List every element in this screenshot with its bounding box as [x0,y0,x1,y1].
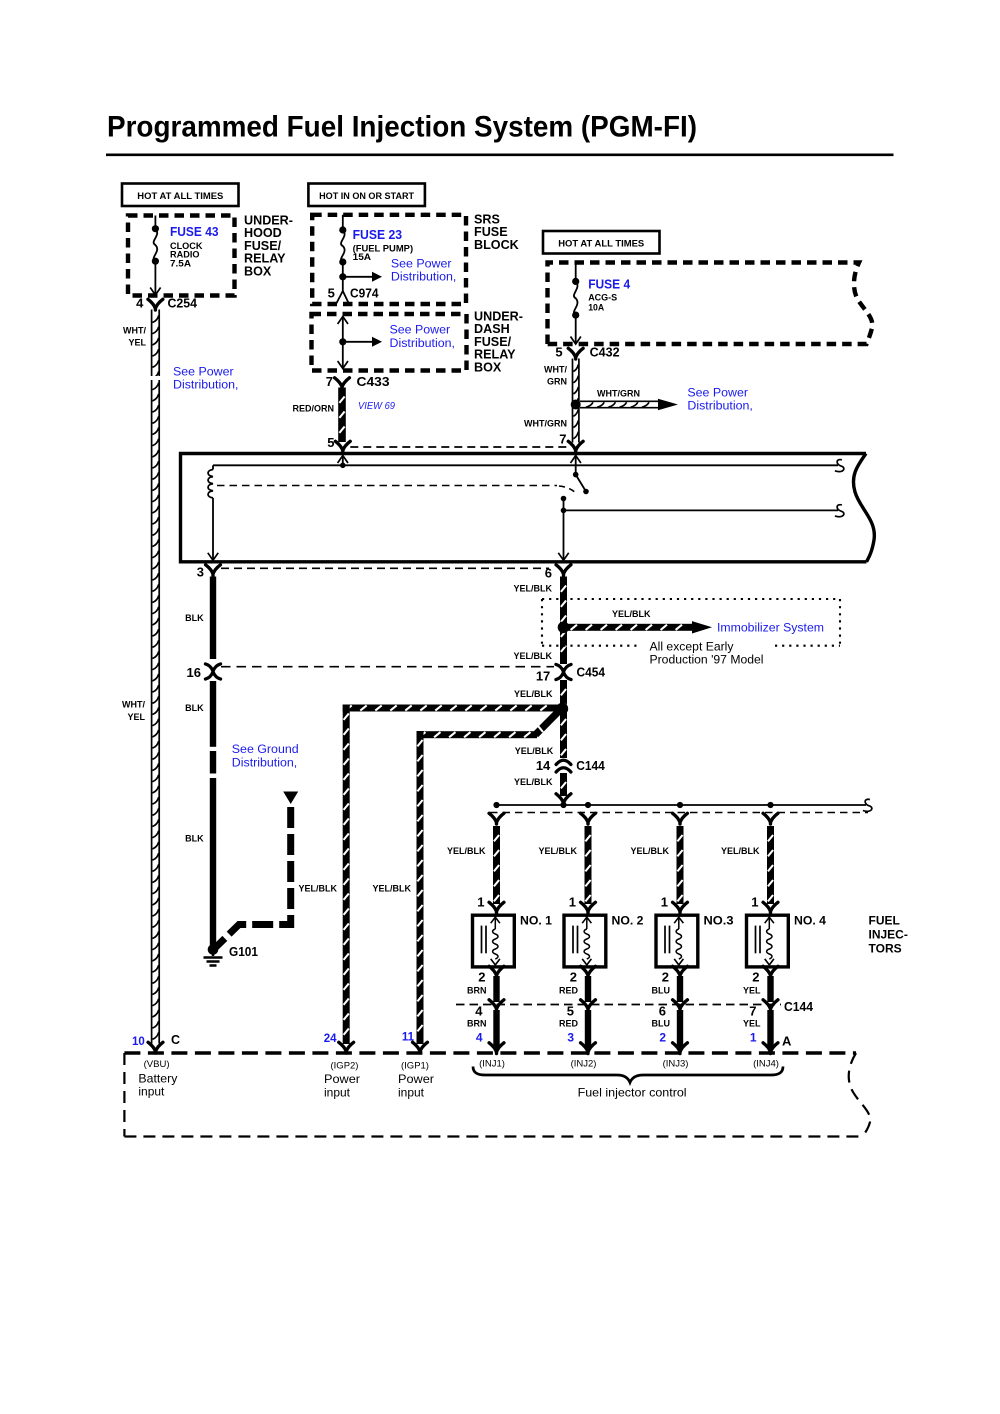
ECM box (dashed, torn right edge) [124,1053,870,1137]
wire YEL/BLK (C454 to C144) [560,680,567,758]
svg-text:YEL/BLK: YEL/BLK [515,746,554,756]
svg-text:GRN: GRN [547,377,567,387]
svg-text:2: 2 [478,970,485,985]
SRS fuse block box (dashed) [312,215,466,304]
relay coil [208,465,218,560]
relay output drop to pin 6 [558,510,568,560]
svg-text:11: 11 [402,1032,415,1044]
wire BLU (upper) [677,976,683,1002]
svg-text:1: 1 [477,895,484,910]
svg-text:See Ground: See Ground [232,742,299,756]
label NO. 2 [612,914,644,928]
svg-text:YEL: YEL [128,338,146,348]
wire YEL/BLK IGP2 (horizontal+vertical) [343,705,558,1045]
svg-text:BLU: BLU [652,1019,671,1029]
svg-text:FUSE 23: FUSE 23 [353,228,403,242]
label YEL/BLK (below C144) [514,777,553,787]
svg-text:7.5A: 7.5A [170,259,192,269]
ground G101 [204,944,223,965]
label See Power Distribution (under-dash) [390,323,455,351]
under-dash fuse/relay box (dashed) [312,314,467,371]
svg-text:WHT/: WHT/ [544,365,567,375]
junction node to immobilizer [558,622,570,634]
svg-text:HOT AT ALL TIMES: HOT AT ALL TIMES [137,191,223,202]
svg-text:5: 5 [328,286,335,301]
injector 3 pin 1 connector [661,895,688,914]
label box HOT AT ALL TIMES (left) [122,184,239,207]
svg-text:C433: C433 [357,374,390,389]
svg-text:17: 17 [536,669,550,684]
svg-text:6: 6 [659,1004,666,1019]
svg-text:YEL: YEL [127,712,145,722]
connector C433 [335,378,350,389]
label Immobilizer System [717,621,824,635]
svg-text:See Power: See Power [687,386,748,400]
fuse box for FUSE 4 (dashed, torn right edge) [548,263,873,345]
connector at ECM (INJ4) [763,1043,778,1054]
rail junction node 3 [677,802,683,808]
branch arrow YEL/BLK to immobilizer system [568,621,712,633]
wire RED (lower) [585,1010,591,1048]
svg-text:Distribution,: Distribution, [390,336,455,350]
svg-text:YEL/BLK: YEL/BLK [514,777,553,787]
svg-text:NO. 2: NO. 2 [612,914,644,928]
label BRN (lower) [467,1019,487,1029]
svg-text:24: 24 [324,1033,337,1045]
wire BLU (lower) [677,1010,683,1048]
svg-text:10A: 10A [588,303,604,313]
svg-text:WHT/GRN: WHT/GRN [524,419,567,429]
label 5 C974 [328,286,380,301]
connector C454 [536,664,606,683]
svg-text:RED/ORN: RED/ORN [292,404,334,414]
wire BRN (upper) [493,976,499,1002]
injector 1 pin 1 connector [477,895,504,914]
relay internal feed line (top) [213,464,838,466]
wire YEL/BLK to injector 4 [767,826,774,904]
label G101 [229,944,258,959]
svg-text:C254: C254 [168,296,198,311]
label VIEW 69 [358,400,395,412]
label pin 4 (blue, INJ1) [476,1031,483,1045]
svg-text:C974: C974 [350,286,379,301]
connector below rail (injector 1) [489,813,504,824]
wire YEL (upper) [767,976,773,1002]
brace fuel injector control [473,1067,783,1083]
wire inside under-dash box [338,317,348,369]
injector 4 pin 1 connector [751,895,778,914]
wire RED (upper) [585,976,591,1002]
wire YEL (lower) [767,1010,773,1048]
svg-text:FUSE 43: FUSE 43 [170,225,219,239]
connector C144 pin 6 [659,1000,688,1019]
label BLK (1) [185,613,204,623]
label YEL/BLK (above C144) [515,746,554,756]
svg-text:BLK: BLK [185,613,204,623]
label RED (lower) [559,1019,579,1029]
svg-text:BRN: BRN [467,1019,487,1029]
svg-text:4: 4 [476,1031,483,1045]
label C144 (injector connector) [784,999,814,1014]
svg-text:YEL: YEL [743,1019,761,1029]
label YEL/BLK (immobilizer arrow) [612,609,651,619]
wire BLK (relay pin 3 to G101) [210,577,216,946]
label (IGP2) Power input [324,1061,360,1100]
label See Ground Distribution [232,742,299,770]
label YEL/BLK (above C454) [513,651,552,661]
label See Power Distribution (right) [687,386,752,413]
svg-text:YEL/BLK: YEL/BLK [612,609,651,619]
connector C144 pin 5 [567,1000,596,1019]
connector C974 [336,286,349,304]
svg-text:BOX: BOX [474,360,502,374]
svg-text:4: 4 [136,296,144,311]
svg-text:1: 1 [661,895,668,910]
label All except Early Production 97 Model [650,639,764,666]
relay torn wire end S (top line) [835,460,844,472]
label (INJ3) [663,1059,689,1070]
junction node on WHT/GRN [571,400,581,410]
fuse FUSE 23 (FUEL PUMP 15A) [339,215,346,286]
label (VBU) Battery input [138,1059,177,1099]
injector 2 internals [573,917,591,965]
label BLU (lower) [652,1019,671,1029]
connector C144 pin 7 [749,1000,778,1019]
label box HOT AT ALL TIMES (right) [543,231,660,254]
label NO.3 [704,914,734,928]
relay torn wire end S (lower line) [835,505,844,517]
svg-text:2: 2 [570,970,577,985]
label RED (upper) [559,986,579,996]
svg-text:See Power: See Power [390,323,451,337]
svg-text:4: 4 [475,1004,483,1019]
label RED/ORN [292,404,334,414]
svg-text:(INJ3): (INJ3) [663,1059,689,1070]
wire YEL/BLK to injector 3 [677,826,684,904]
fuel injector NO. 1 box [473,915,515,967]
svg-text:YEL: YEL [743,986,761,996]
connector ECM pin 24 (IGP2) [324,1033,354,1053]
svg-text:14: 14 [536,758,551,773]
svg-text:See Power: See Power [391,257,452,271]
relay internal output line (lower) [561,508,838,514]
svg-text:Battery: Battery [138,1072,177,1086]
branch arrow WHT/GRN to power distribution [580,399,678,411]
label A [782,1034,792,1049]
label FUSE 23 [353,228,403,242]
label 7 C433 [326,374,390,389]
svg-text:(INJ4): (INJ4) [753,1059,779,1070]
svg-text:WHT/: WHT/ [123,326,146,336]
svg-text:TORS: TORS [869,942,902,956]
label ACG-S 10A [588,293,617,313]
label 4 C254 [136,296,198,311]
connector at ECM (INJ1) [489,1043,504,1054]
svg-text:(INJ2): (INJ2) [571,1059,597,1070]
label YEL/BLK (IGP1 wire) [372,884,411,894]
label See Power Distribution (fuse 23) [391,257,456,284]
connector pin 5 into relay [327,435,350,452]
svg-text:YEL/BLK: YEL/BLK [298,884,337,894]
svg-text:15A: 15A [353,252,372,262]
relay entry arrow from pin 5 [338,456,348,469]
label pin 3 (blue, INJ2) [567,1031,574,1045]
svg-text:7: 7 [749,1004,756,1019]
label See Power Distribution (left) [173,365,238,392]
svg-text:7: 7 [559,432,566,447]
connector below rail (injector 2) [581,813,596,824]
svg-text:YEL/BLK: YEL/BLK [513,651,552,661]
label UNDER-DASH FUSE/RELAY BOX [474,310,523,375]
label SRS FUSE BLOCK [474,213,519,252]
connector pin 6 below relay [545,565,571,581]
injector 3 pin 2 connector [662,966,688,984]
svg-text:All except Early: All except Early [650,639,735,653]
svg-text:BLU: BLU [652,986,671,996]
svg-text:Power: Power [398,1072,434,1086]
fuse FUSE 4 (ACG-S 10A) [571,263,581,345]
svg-text:HOT IN ON OR START: HOT IN ON OR START [319,191,414,202]
PGM-FI main relay box (torn right edge) [181,454,875,562]
svg-text:10: 10 [132,1036,145,1048]
svg-text:5: 5 [555,345,562,360]
svg-text:RED: RED [559,1019,579,1029]
svg-text:YEL/BLK: YEL/BLK [514,689,553,699]
svg-text:YEL/BLK: YEL/BLK [447,846,486,856]
label (INJ2) [571,1059,597,1070]
connector line C144 (injectors) [456,1004,781,1006]
svg-text:NO. 1: NO. 1 [520,914,552,928]
label BLK (3) [185,834,204,844]
svg-text:FUSE 4: FUSE 4 [588,278,630,292]
svg-text:WHT/GRN: WHT/GRN [597,389,640,399]
svg-text:Distribution,: Distribution, [232,756,297,770]
label FUSE 4 [588,278,630,292]
svg-text:C144: C144 [576,758,605,773]
injector 1 internals [482,917,500,965]
svg-text:C454: C454 [577,665,606,680]
svg-text:NO.3: NO.3 [704,914,734,928]
svg-text:YEL/BLK: YEL/BLK [513,584,552,594]
label YEL/BLK (below 6) [513,584,552,594]
svg-text:C144: C144 [784,999,814,1014]
svg-text:2: 2 [659,1031,666,1045]
svg-text:2: 2 [662,970,669,985]
connector boundary dashed line C433/C432 [350,446,570,448]
svg-text:input: input [398,1086,425,1100]
label FUSE 43 [170,225,219,239]
rail connector dashed line [490,812,868,814]
label YEL (lower) [743,1019,761,1029]
svg-text:YEL/BLK: YEL/BLK [721,846,760,856]
connector at ECM (INJ3) [673,1043,688,1054]
label box HOT IN ON OR START [308,184,425,207]
label BLK (2) [185,703,204,713]
svg-text:ACG-S: ACG-S [588,293,617,303]
svg-text:BLK: BLK [185,834,204,844]
wire YEL/BLK (C144 to rail) [560,773,567,796]
label Fuel injector control [578,1086,687,1100]
label 5 C432 [555,345,619,360]
label NO. 1 [520,914,552,928]
connector C144 pin 4 [475,1000,504,1019]
connector ECM pin 10/C (VBU) [132,1033,180,1053]
rail torn wire end S [863,799,872,811]
wire WHT/YEL from C254 to ECM pin 10 [150,310,161,1044]
connector C144 (inline) [536,758,606,773]
label pin 1 (blue, INJ4) [750,1031,757,1045]
svg-text:Power: Power [324,1072,360,1086]
connector ECM pin 11 (IGP1) [402,1032,428,1054]
svg-text:Distribution,: Distribution, [173,378,238,392]
connector at rail (feed) [556,794,571,805]
svg-text:Programmed Fuel Injection Syst: Programmed Fuel Injection System (PGM-FI… [107,111,697,144]
injector 4 pin 2 connector [752,966,778,984]
svg-text:See Power: See Power [173,365,234,379]
label (FUEL PUMP) 15A [353,244,414,263]
wire YEL/BLK to injector 1 [493,826,500,904]
label WHT/YEL (upper) [123,326,146,348]
wire YEL/BLK to injector 2 [585,826,592,904]
immobilizer dotted box [542,599,840,646]
connector pin 3 below relay [197,565,221,580]
rail junction node feed [560,802,566,808]
svg-text:VIEW 69: VIEW 69 [358,400,395,412]
svg-text:BLOCK: BLOCK [474,238,519,252]
svg-text:C: C [171,1033,180,1047]
svg-text:Immobilizer System: Immobilizer System [717,621,824,635]
svg-text:(INJ1): (INJ1) [479,1059,505,1070]
svg-text:3: 3 [567,1031,574,1045]
svg-text:YEL/BLK: YEL/BLK [538,846,577,856]
svg-text:Production '97 Model: Production '97 Model [650,652,764,666]
label pin 2 (blue, INJ3) [659,1031,666,1045]
wire YEL/BLK IGP1 (horizontal+diagonal+vertical) [417,710,561,1044]
branch arrow to power distribution (fuse 23) [343,272,382,282]
under-hood fuse/relay box (dashed) [128,216,235,296]
fuel injector NO.3 box [656,915,698,967]
splice 16 [187,664,221,680]
connector below rail (injector 4) [763,813,778,824]
svg-text:WHT/: WHT/ [122,700,145,710]
label YEL/BLK (injector 3) [630,846,669,856]
connector C432 [568,348,583,359]
svg-text:YEL/BLK: YEL/BLK [372,884,411,894]
wire RED/ORN [338,388,346,443]
label WHT/GRN (lower) [524,419,567,429]
svg-text:input: input [138,1085,165,1099]
svg-text:(IGP2): (IGP2) [331,1061,359,1072]
label BLU (upper) [652,986,671,996]
injector 1 pin 2 connector [478,966,504,984]
label YEL/BLK (injector 4) [721,846,760,856]
rail junction node 2 [585,802,591,808]
svg-text:3: 3 [197,565,204,580]
connector at ECM (INJ2) [581,1043,596,1054]
svg-text:(VBU): (VBU) [144,1059,170,1070]
injector 2 pin 1 connector [569,895,596,914]
svg-text:7: 7 [326,374,333,389]
rail junction node 1 [493,802,499,808]
injector 4 internals [756,917,774,965]
svg-text:Distribution,: Distribution, [687,399,752,413]
label (INJ1) [479,1059,505,1070]
wire YEL/BLK (pin 6 down to C454) [560,577,567,665]
svg-text:A: A [782,1034,792,1049]
svg-text:NO. 4: NO. 4 [794,914,826,928]
connector boundary dashed line C454 [221,666,554,668]
label YEL/BLK (below C454) [514,689,553,699]
svg-text:16: 16 [187,665,201,680]
svg-text:BLK: BLK [185,703,204,713]
svg-text:5: 5 [567,1004,574,1019]
rail junction node 4 [767,802,773,808]
svg-text:RED: RED [559,986,579,996]
svg-text:1: 1 [751,895,758,910]
relay switch [561,472,589,511]
connector boundary dashed line below relay [221,567,549,569]
svg-text:YEL/BLK: YEL/BLK [630,846,669,856]
svg-text:Distribution,: Distribution, [391,270,456,284]
svg-text:HOT AT ALL TIMES: HOT AT ALL TIMES [558,238,644,249]
relay actuation dashed link [217,486,577,495]
connector C254 [148,299,163,310]
svg-text:BRN: BRN [467,986,487,996]
svg-text:BOX: BOX [244,264,272,278]
title rule [106,154,894,157]
svg-text:G101: G101 [229,944,258,959]
label WHT/GRN (upper) [544,365,567,387]
connector pin 7 into relay [559,432,583,453]
title: Programmed Fuel Injection System (PGM-FI) [107,111,697,144]
svg-text:(IGP1): (IGP1) [401,1061,429,1072]
label CLOCK RADIO 7.5A [170,241,203,269]
svg-text:C432: C432 [590,345,620,360]
fuel injector NO. 2 box [564,915,606,967]
svg-text:1: 1 [569,895,576,910]
svg-text:input: input [324,1086,351,1100]
injector 3 internals [665,917,683,965]
label WHT/GRN (on arrow) [597,389,640,399]
injector supply rail wire [494,804,866,806]
label WHT/YEL (lower) [122,700,145,723]
label NO. 4 [794,914,826,928]
wire YEL/BLK dashed to G101 (with arrow) [216,792,299,948]
svg-text:FUEL: FUEL [869,914,900,928]
label BRN (upper) [467,986,487,996]
svg-text:1: 1 [750,1031,757,1045]
fuel injector NO. 4 box [747,915,789,967]
svg-text:2: 2 [752,970,759,985]
injector 2 pin 2 connector [570,966,596,984]
relay entry arrow from pin 7 [571,456,581,475]
label YEL/BLK (injector 2) [538,846,577,856]
fuse FUSE 43 (CLOCK RADIO 7.5A) [150,216,160,296]
label YEL/BLK (IGP2 wire) [298,884,337,894]
label YEL (upper) [743,986,761,996]
branch arrow to power distribution (under-dash) [343,337,382,347]
svg-text:5: 5 [327,435,334,450]
label UNDER-HOOD FUSE/RELAY BOX [244,214,293,279]
connector below rail (injector 3) [673,813,688,824]
svg-text:INJEC-: INJEC- [869,928,908,942]
junction node of IGP wires [556,703,568,715]
label YEL/BLK (injector 1) [447,846,486,856]
wire BRN (lower) [493,1010,499,1048]
label (INJ4) [753,1059,779,1070]
label FUEL INJECTORS [869,914,908,956]
svg-text:Fuel injector control: Fuel injector control [578,1086,687,1100]
